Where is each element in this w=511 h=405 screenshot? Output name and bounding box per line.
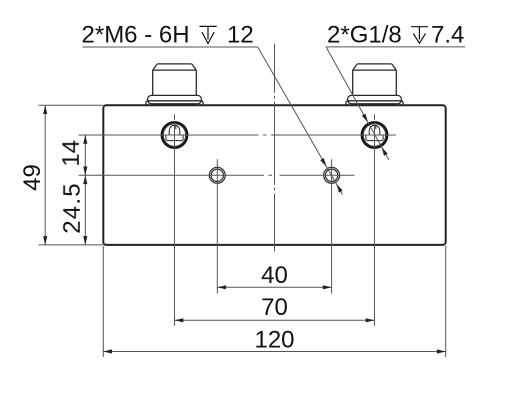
- centerline vertical left big circle / extension for 70: [174, 114, 176, 326]
- extension line top left (49): [39, 104, 104, 106]
- dimension 40: [217, 286, 331, 288]
- svg-text:70: 70: [261, 294, 288, 321]
- centerline vertical right small circle / extension for 40: [331, 159, 333, 293]
- mounting hole M6 left (small circle): [209, 167, 225, 183]
- leader G1/8 arrow lower: [382, 147, 388, 156]
- centerline horizontal through big circles: [79, 134, 397, 136]
- centerline vertical right big circle / extension for 70: [374, 114, 376, 326]
- leader M6 arrow lower: [336, 184, 342, 193]
- svg-text:24.5: 24.5: [59, 182, 86, 234]
- extension line bottom right vertical (120): [445, 246, 447, 357]
- centerline horizontal through small circles: [79, 174, 355, 176]
- fitting left: [146, 64, 203, 105]
- dimension 24.5: [84, 175, 86, 245]
- body outline: [103, 105, 445, 245]
- leader G1/8 line: [326, 47, 389, 160]
- dimension 49: [44, 105, 46, 245]
- svg-text:120: 120: [254, 327, 294, 354]
- extension line bottom left vertical (120): [102, 246, 104, 357]
- dimension 120: [103, 351, 445, 353]
- port G1/8 right (big circle): [362, 122, 388, 148]
- extension line bottom left (49/24.5): [39, 244, 104, 246]
- port G1/8 left (big circle): [162, 122, 188, 148]
- svg-text:7.4: 7.4: [431, 21, 464, 48]
- depth symbol G1/8: [411, 27, 428, 44]
- depth symbol M6: [200, 26, 217, 43]
- mounting hole M6 right (small circle): [324, 167, 340, 183]
- svg-text:40: 40: [261, 262, 288, 289]
- svg-text:14: 14: [58, 140, 85, 167]
- svg-text:12: 12: [227, 21, 254, 48]
- leader M6 underline: [82, 46, 257, 48]
- fitting right: [346, 64, 403, 105]
- leader G1/8 arrow upper: [362, 114, 368, 123]
- dimension 14: [84, 135, 86, 175]
- leader G1/8 underline: [326, 46, 465, 48]
- centerline vertical middle: [274, 44, 276, 252]
- svg-text:2*G1/8: 2*G1/8: [327, 21, 402, 48]
- centerline vertical left small circle / extension for 40: [216, 159, 218, 293]
- dimension 70: [175, 319, 375, 321]
- leader M6 line: [258, 47, 343, 195]
- svg-text:2*M6 - 6H: 2*M6 - 6H: [82, 21, 190, 48]
- svg-text:49: 49: [19, 164, 46, 191]
- leader M6 arrow upper: [320, 158, 326, 167]
